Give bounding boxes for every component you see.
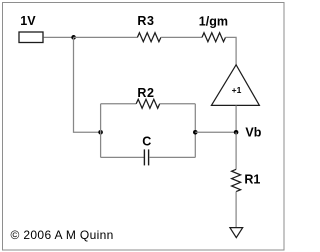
resistor R3: [137, 33, 161, 42]
wire from R2/C block to node Vb: [195, 131, 236, 133]
ground: [230, 228, 243, 238]
svg-text:R2: R2: [137, 86, 154, 100]
wire right side of R2/C block: [194, 104, 196, 158]
op-amp U1 buffer (+1): [211, 65, 259, 106]
label C: [142, 134, 151, 148]
wire node A down to feed corner: [74, 37, 101, 132]
label R3: [137, 14, 154, 28]
capacitor C: [144, 149, 148, 165]
wire from node A to R3: [74, 36, 138, 38]
wire top branch right (from R2): [160, 103, 196, 105]
svg-text:R3: R3: [137, 14, 154, 28]
wire bottom branch right (from C): [149, 156, 195, 158]
wire left side of R2/C block: [100, 104, 102, 158]
wire from 1/gm to buffer input (corner): [226, 37, 237, 65]
wire buffer output down to node Vb: [235, 105, 237, 132]
wire top branch left (to R2): [101, 103, 137, 105]
resistor R1 (vertical): [232, 169, 241, 191]
wire from R3 to 1/gm resistor: [161, 36, 202, 38]
node B junction dot (left of R2/C block): [98, 130, 103, 135]
svg-text:© 2006 A M Quinn: © 2006 A M Quinn: [11, 228, 114, 242]
voltage source V1 (1V box): [19, 32, 43, 43]
label Vb: [245, 126, 261, 140]
svg-text:+1: +1: [232, 85, 242, 95]
svg-text:Vb: Vb: [245, 126, 261, 140]
label R2: [137, 86, 154, 100]
wire bottom branch left (to C): [101, 156, 144, 158]
svg-text:1V: 1V: [20, 14, 36, 28]
label R1: [244, 173, 260, 187]
label 1V: [20, 14, 36, 28]
wire from V1 to node A: [44, 36, 74, 38]
resistor 1/gm: [202, 33, 226, 42]
node C junction dot (right of R2/C block): [193, 130, 198, 135]
resistor R2: [136, 99, 160, 108]
copyright annotation: [11, 228, 114, 242]
node A junction dot: [71, 35, 76, 40]
wire node Vb down to R1: [235, 132, 237, 169]
node Vb junction dot: [234, 130, 239, 135]
label 1/gm: [199, 15, 228, 29]
svg-text:R1: R1: [244, 173, 260, 187]
svg-text:1/gm: 1/gm: [199, 15, 228, 29]
wire R1 down to ground: [235, 192, 237, 228]
label +1: [232, 85, 242, 95]
svg-text:C: C: [142, 134, 151, 148]
